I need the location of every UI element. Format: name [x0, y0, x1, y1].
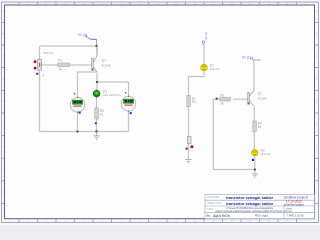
- svg-text:1k: 1k: [258, 125, 262, 129]
- svg-text:1k: 1k: [58, 67, 62, 71]
- svg-text:LED-HD: LED-HD: [210, 67, 220, 71]
- svg-text:A: A: [2, 10, 4, 14]
- svg-text:H: H: [316, 168, 318, 172]
- svg-text:PATH:: PATH:: [207, 208, 214, 211]
- svg-text:Q1: Q1: [258, 92, 263, 96]
- svg-text:D: D: [316, 77, 318, 81]
- svg-text:D: D: [2, 77, 4, 81]
- svg-text:SW1(1): SW1(1): [43, 51, 53, 55]
- svg-text:transistor sebagai saklar: transistor sebagai saklar: [226, 201, 274, 206]
- svg-text:AgusTriOn: AgusTriOn: [212, 214, 230, 218]
- svg-text:1k: 1k: [100, 112, 104, 116]
- svg-text:D1: D1: [210, 63, 214, 67]
- svg-text:E: E: [2, 100, 4, 104]
- svg-text:LED-GRN 5mm: LED-GRN 5mm: [103, 93, 121, 97]
- svg-text:C: C: [316, 55, 318, 59]
- svg-text:.sch(New page): .sch(New page): [283, 202, 304, 206]
- svg-text:A: A: [316, 10, 318, 14]
- svg-text:D2: D2: [261, 149, 265, 153]
- svg-text:D1: D1: [103, 89, 107, 93]
- svg-text:H: H: [2, 168, 4, 172]
- svg-text:G: G: [315, 145, 317, 149]
- svg-text:9V (1): 9V (1): [78, 33, 87, 37]
- svg-text:1k: 1k: [220, 102, 224, 106]
- svg-text:transistor sebagai saklar: transistor sebagai saklar: [226, 195, 274, 200]
- svg-text:9V (1): 9V (1): [204, 32, 208, 40]
- svg-text:R1: R1: [58, 59, 62, 63]
- svg-text:B: B: [316, 32, 318, 36]
- svg-text:SHEET TITLE:: SHEET TITLE:: [207, 203, 222, 205]
- svg-text:G: G: [2, 145, 4, 149]
- svg-text:TIME 5:16:36: TIME 5:16:36: [287, 213, 304, 217]
- svg-text:C: C: [2, 55, 4, 59]
- svg-text:REV: agcy: REV: agcy: [255, 213, 269, 217]
- svg-text:BC548: BC548: [258, 97, 268, 101]
- svg-text:R1: R1: [192, 100, 196, 104]
- svg-text:BC548: BC548: [102, 63, 112, 67]
- svg-text:9V (1): 9V (1): [242, 56, 251, 60]
- svg-text:FILE NAME:: FILE NAME:: [207, 196, 220, 199]
- svg-text:nsistor sebagai saklar\transis: nsistor sebagai saklar\transistor sebaga…: [215, 209, 292, 213]
- svg-text:R2: R2: [220, 93, 224, 97]
- svg-text:E: E: [316, 100, 318, 104]
- svg-text:Q1: Q1: [102, 58, 107, 62]
- svg-text:A: A: [43, 73, 45, 77]
- svg-text:By:: By:: [207, 214, 212, 218]
- svg-text:B: B: [2, 32, 4, 36]
- svg-text:LED-HD: LED-HD: [261, 152, 271, 156]
